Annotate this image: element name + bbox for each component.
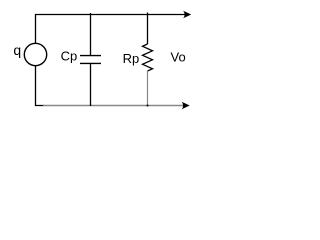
wire: source bottom lead bbox=[36, 66, 45, 106]
wire: resistor bottom lead bbox=[147, 71, 149, 106]
wire: capacitor top lead bbox=[90, 13, 92, 56]
svg-text:Vo: Vo bbox=[171, 50, 186, 65]
capacitor Cp top plate bbox=[80, 55, 101, 57]
svg-text:Cp: Cp bbox=[61, 48, 78, 63]
node: bottom output arrowhead bbox=[182, 102, 190, 110]
resistor Rp zigzag bbox=[143, 44, 153, 71]
current source q (circle) bbox=[24, 43, 46, 65]
junction: resistor/bottom rail bbox=[147, 105, 149, 107]
node: top output arrowhead bbox=[183, 11, 191, 19]
capacitor Cp bottom plate bbox=[80, 62, 101, 64]
svg-text:q: q bbox=[13, 42, 21, 58]
svg-text:Rp: Rp bbox=[123, 51, 140, 66]
wire: resistor top lead bbox=[147, 13, 149, 45]
wire: bottom rail bbox=[43, 105, 184, 107]
wire: capacitor bottom lead bbox=[90, 63, 92, 106]
wire: top rail bbox=[36, 15, 186, 44]
